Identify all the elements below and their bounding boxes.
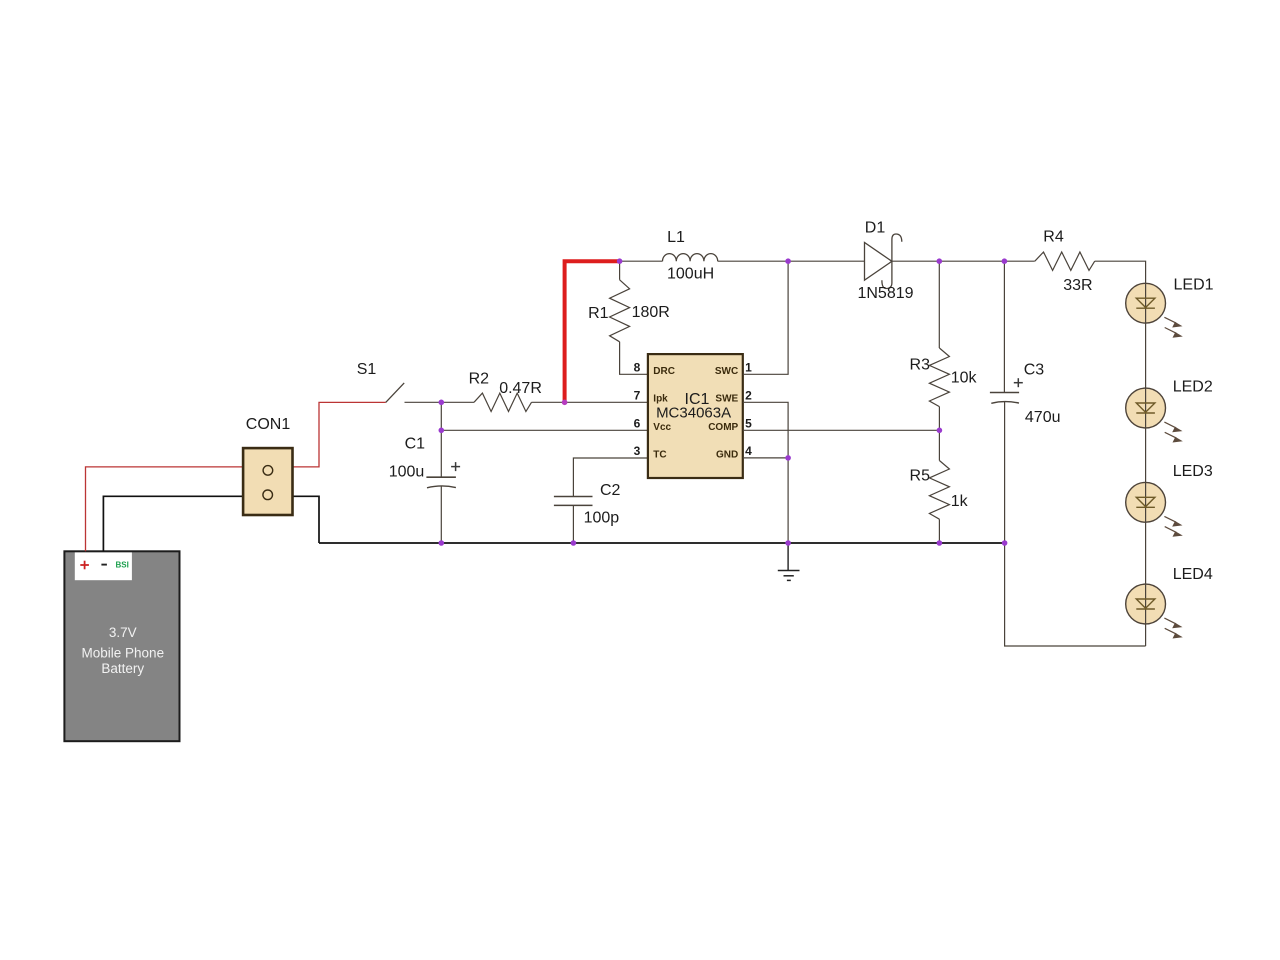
resistor R4 33R: [1035, 252, 1095, 270]
svg-text:R4: R4: [1043, 229, 1064, 246]
svg-text:180R: 180R: [632, 304, 670, 321]
junction node red feed at pin7 wire: [562, 400, 568, 406]
wire battery + to CON1 (red): [86, 467, 244, 551]
svg-text:8: 8: [634, 360, 641, 374]
battery BT (3.7V mobile phone battery): [64, 551, 179, 741]
junction node SWC/L1/D1: [785, 258, 791, 264]
switch S1 lever: [386, 383, 405, 403]
junction node Vcc/C1: [439, 428, 445, 434]
svg-text:7: 7: [634, 388, 641, 402]
svg-text:DRC: DRC: [653, 366, 675, 377]
junction node rail ground: [785, 540, 791, 546]
junction node rail C2: [571, 540, 577, 546]
svg-text:470u: 470u: [1025, 409, 1061, 426]
wire pin3 TC to C2: [573, 458, 648, 497]
wire thick red feed (pin7 node to L1 input): [565, 261, 620, 402]
svg-text:GND: GND: [716, 450, 738, 461]
svg-text:D1: D1: [865, 220, 886, 237]
svg-text:CON1: CON1: [246, 416, 291, 433]
svg-text:100p: 100p: [584, 510, 620, 527]
junction node rail R5: [937, 540, 943, 546]
svg-text:BSI: BSI: [116, 561, 129, 570]
junction node C3 top: [1002, 258, 1008, 264]
resistor R3 10k: [929, 261, 949, 430]
svg-text:5: 5: [745, 416, 752, 430]
resistor R1 180R: [610, 261, 648, 374]
svg-text:1N5819: 1N5819: [857, 285, 913, 302]
LED2: [1126, 388, 1183, 442]
svg-text:C3: C3: [1024, 362, 1045, 379]
connector CON1: [243, 448, 292, 515]
wire battery - to CON1 (black): [103, 496, 243, 551]
capacitor C2 100p: [554, 497, 593, 544]
ground symbol: [778, 543, 800, 580]
junction node COMP/R3/R5: [937, 428, 943, 434]
junction node L1/R1/red feed: [617, 258, 623, 264]
svg-text:3.7V: 3.7V: [109, 625, 137, 640]
svg-text:LED1: LED1: [1174, 277, 1214, 294]
svg-text:SWE: SWE: [715, 394, 738, 405]
capacitor C3 470u: [990, 261, 1023, 543]
junction node SWE/GND: [785, 455, 791, 461]
LED3: [1126, 482, 1183, 536]
wire LED return to rail: [1005, 543, 1146, 646]
svg-text:S1: S1: [357, 361, 377, 378]
svg-text:LED4: LED4: [1173, 566, 1213, 583]
inductor L1: [663, 254, 718, 262]
wire Vcc pin6 to C1 node: [441, 429, 648, 431]
svg-text:4: 4: [745, 444, 752, 458]
svg-text:R1: R1: [588, 305, 609, 322]
wire LED column: [1145, 284, 1147, 646]
junction node S1/R2/C1: [439, 400, 445, 406]
wire top rail L1 to D1: [718, 260, 865, 262]
svg-text:Vcc: Vcc: [653, 422, 671, 433]
svg-text:R2: R2: [469, 371, 490, 388]
wire pin5 COMP to R3/R5 node: [743, 429, 940, 431]
IC U1 MC34063A body: [648, 354, 743, 478]
wire pin1 SWC up to top rail: [743, 261, 788, 374]
svg-text:COMP: COMP: [708, 422, 738, 433]
wire pin4 GND: [743, 457, 788, 459]
svg-text:TC: TC: [653, 450, 666, 461]
wire R2 to pin7: [532, 401, 648, 403]
svg-text:1k: 1k: [951, 493, 969, 510]
svg-text:R3: R3: [910, 357, 931, 374]
svg-text:1: 1: [745, 360, 752, 374]
svg-text:MC34063A: MC34063A: [656, 405, 731, 422]
svg-text:3: 3: [634, 444, 641, 458]
wire S1 to R2: [405, 401, 475, 403]
junction node rail C3/LED return: [1002, 540, 1008, 546]
wire pin2 SWE to ground column: [743, 402, 788, 543]
LED4: [1126, 584, 1183, 638]
wire CON1 to bottom rail (black): [293, 496, 320, 543]
svg-text:6: 6: [634, 416, 641, 430]
svg-text:10k: 10k: [951, 370, 978, 387]
svg-text:100u: 100u: [389, 464, 425, 481]
wire D1 to R4: [892, 260, 1035, 262]
svg-text:R5: R5: [910, 468, 931, 485]
svg-text:C1: C1: [405, 435, 426, 452]
junction node D1/R3: [937, 258, 943, 264]
diode D1 1N5819 (schottky): [865, 234, 902, 289]
wire R4 to LED column: [1095, 261, 1146, 283]
bottom ground rail: [319, 542, 1005, 544]
svg-text:SWC: SWC: [715, 366, 738, 377]
svg-text:Mobile Phone: Mobile Phone: [82, 645, 165, 660]
svg-text:LED2: LED2: [1173, 379, 1213, 396]
wire top rail L1 left: [620, 260, 663, 262]
svg-text:100uH: 100uH: [667, 266, 714, 283]
svg-text:L1: L1: [667, 229, 685, 246]
LED1: [1126, 283, 1183, 337]
svg-text:LED3: LED3: [1173, 463, 1213, 480]
resistor R2: [474, 393, 532, 411]
junction node rail C1: [439, 540, 445, 546]
svg-text:C2: C2: [600, 482, 621, 499]
svg-text:33R: 33R: [1063, 277, 1092, 294]
resistor R5 1k: [929, 430, 949, 543]
svg-text:Ipk: Ipk: [653, 394, 668, 405]
svg-text:0.47R: 0.47R: [499, 380, 542, 397]
capacitor C1 100u: [426, 402, 460, 543]
svg-text:2: 2: [745, 388, 752, 402]
svg-text:Battery: Battery: [101, 661, 144, 676]
wire CON1 to S1 (red): [293, 402, 386, 467]
